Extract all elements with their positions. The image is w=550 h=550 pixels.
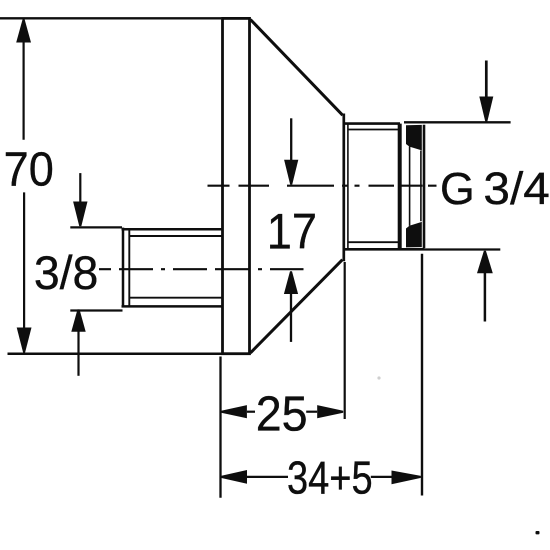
svg-text:3/4: 3/4	[483, 163, 549, 214]
svg-text:34+5: 34+5	[287, 452, 373, 503]
svg-text:17: 17	[267, 204, 317, 260]
svg-text:3/8: 3/8	[34, 247, 99, 299]
svg-text:70: 70	[4, 142, 54, 196]
svg-text:25: 25	[256, 387, 308, 441]
svg-text:G: G	[440, 163, 475, 215]
